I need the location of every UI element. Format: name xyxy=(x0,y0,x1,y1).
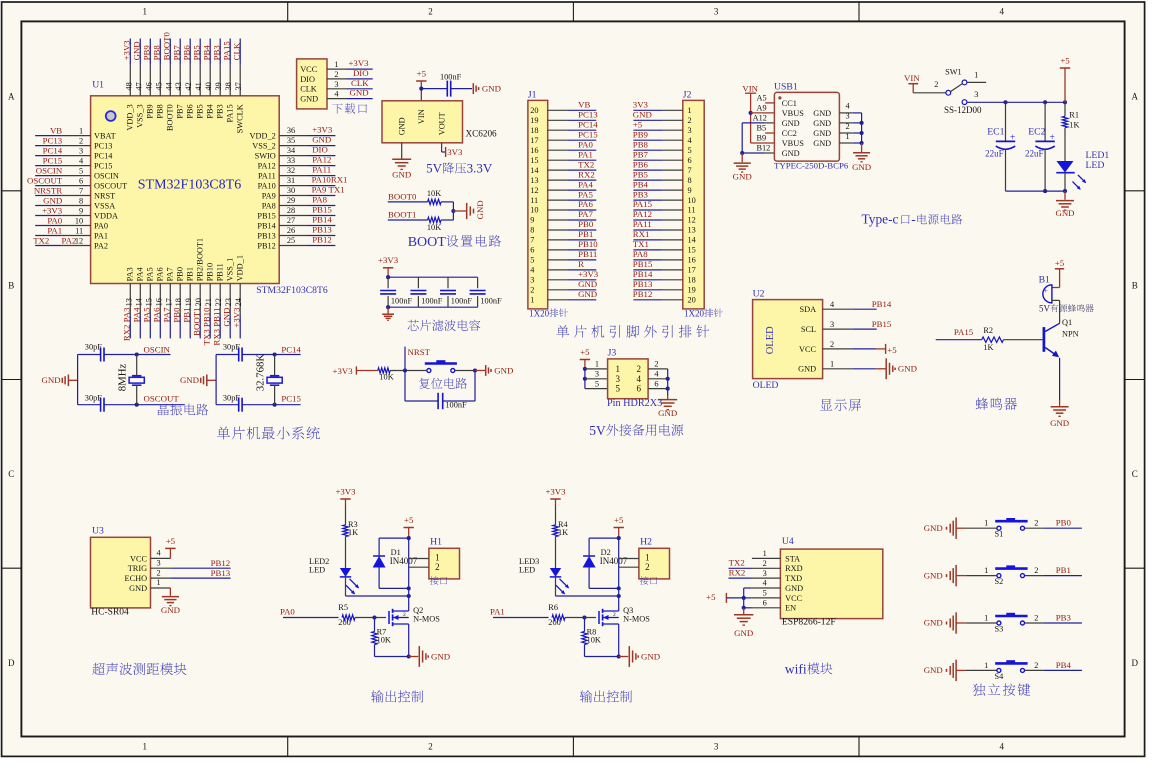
svg-text:+3V3: +3V3 xyxy=(312,125,333,135)
svg-text:Q1: Q1 xyxy=(1062,318,1072,327)
svg-text:GND: GND xyxy=(782,149,800,158)
svg-text:PA1: PA1 xyxy=(94,231,108,240)
svg-text:S2: S2 xyxy=(995,577,1004,586)
svg-text:10: 10 xyxy=(688,196,696,205)
svg-text:PB15: PB15 xyxy=(633,259,653,269)
svg-text:PB0: PB0 xyxy=(1056,518,1072,528)
svg-text:H2: H2 xyxy=(640,537,652,548)
svg-text:TYPEC-250D-BCP6: TYPEC-250D-BCP6 xyxy=(774,160,849,170)
svg-text:18: 18 xyxy=(530,126,538,135)
svg-text:NRSTR: NRSTR xyxy=(34,185,62,195)
svg-text:PA12: PA12 xyxy=(258,162,276,171)
svg-text:PB12: PB12 xyxy=(211,558,231,568)
svg-text:6: 6 xyxy=(763,599,767,608)
svg-text:PB13: PB13 xyxy=(312,225,332,235)
svg-text:2: 2 xyxy=(79,137,83,146)
svg-text:PA5: PA5 xyxy=(146,267,155,281)
svg-text:LED: LED xyxy=(1086,160,1105,171)
svg-text:10K: 10K xyxy=(377,636,391,645)
svg-text:PB7: PB7 xyxy=(633,149,649,159)
svg-text:PB12: PB12 xyxy=(312,235,332,245)
svg-text:2: 2 xyxy=(157,568,161,577)
svg-text:IN4007: IN4007 xyxy=(390,556,418,566)
svg-text:PB14: PB14 xyxy=(872,299,892,309)
svg-text:33: 33 xyxy=(287,156,295,165)
svg-text:15: 15 xyxy=(530,156,538,165)
svg-text:PA11: PA11 xyxy=(312,165,331,175)
svg-text:10K: 10K xyxy=(379,373,393,382)
svg-text:GND: GND xyxy=(1050,418,1069,428)
svg-text:PC15: PC15 xyxy=(281,394,301,404)
svg-text:OSCOUT: OSCOUT xyxy=(144,394,180,404)
svg-text:2: 2 xyxy=(846,122,850,131)
svg-text:PA10: PA10 xyxy=(258,182,276,191)
svg-text:NRST: NRST xyxy=(408,347,431,357)
svg-text:PB4: PB4 xyxy=(1056,660,1072,670)
svg-text:1: 1 xyxy=(974,71,978,80)
svg-text:GND: GND xyxy=(1055,208,1074,218)
svg-text:CC2: CC2 xyxy=(782,129,797,138)
svg-text:GND: GND xyxy=(129,584,147,593)
svg-text:5: 5 xyxy=(763,589,767,598)
svg-text:PA4: PA4 xyxy=(136,266,145,281)
svg-text:PA12: PA12 xyxy=(633,209,652,219)
svg-text:+3V3: +3V3 xyxy=(348,58,369,68)
svg-text:6: 6 xyxy=(637,384,642,394)
svg-text:SCL: SCL xyxy=(801,325,816,334)
svg-text:B1: B1 xyxy=(1039,274,1050,285)
svg-text:TX1: TX1 xyxy=(633,239,649,249)
svg-text:PA1: PA1 xyxy=(490,607,505,617)
svg-text:PA15: PA15 xyxy=(633,199,653,209)
svg-text:+: + xyxy=(1010,133,1015,143)
svg-text:100nF: 100nF xyxy=(421,297,443,306)
svg-text:30pF: 30pF xyxy=(223,394,240,403)
svg-text:PC14: PC14 xyxy=(94,152,113,161)
svg-text:GND: GND xyxy=(924,665,943,675)
svg-text:PB13: PB13 xyxy=(633,279,653,289)
svg-text:7: 7 xyxy=(79,187,83,196)
svg-text:HC-SR04: HC-SR04 xyxy=(91,608,129,618)
svg-text:20: 20 xyxy=(688,296,696,305)
svg-text:TRIG: TRIG xyxy=(128,564,147,573)
svg-text:16: 16 xyxy=(530,146,538,155)
svg-text:VDD_3: VDD_3 xyxy=(126,104,135,130)
svg-text:PC14: PC14 xyxy=(43,145,63,155)
svg-text:PA11: PA11 xyxy=(633,219,652,229)
svg-text:PB0: PB0 xyxy=(176,267,185,281)
svg-text:PB9: PB9 xyxy=(142,45,152,61)
svg-text:PC13: PC13 xyxy=(94,142,112,151)
svg-text:GND: GND xyxy=(813,139,831,148)
svg-text:48: 48 xyxy=(124,82,133,90)
svg-text:PB4: PB4 xyxy=(202,45,212,61)
svg-text:PB12: PB12 xyxy=(257,241,275,250)
svg-text:PA7: PA7 xyxy=(162,307,172,322)
svg-text:41: 41 xyxy=(194,82,203,90)
svg-text:2: 2 xyxy=(613,612,616,618)
svg-text:STM32F103C8T6: STM32F103C8T6 xyxy=(256,285,328,296)
svg-text:GND: GND xyxy=(132,41,142,60)
svg-text:5V: 5V xyxy=(589,423,606,438)
svg-text:2: 2 xyxy=(1034,519,1038,528)
svg-text:10K: 10K xyxy=(427,189,441,198)
svg-text:2: 2 xyxy=(428,7,433,17)
svg-text:Pin HDR2X3: Pin HDR2X3 xyxy=(607,398,662,409)
svg-text:VDD_1: VDD_1 xyxy=(236,255,245,281)
svg-text:+3V3: +3V3 xyxy=(378,255,399,265)
svg-text:PB15: PB15 xyxy=(872,319,892,329)
svg-text:28: 28 xyxy=(287,206,295,215)
svg-text:VDD_2: VDD_2 xyxy=(250,132,276,141)
svg-text:34: 34 xyxy=(287,146,296,155)
svg-text:PA12: PA12 xyxy=(312,155,331,165)
svg-text:A9: A9 xyxy=(757,104,767,113)
svg-text:PB0: PB0 xyxy=(578,219,594,229)
svg-text:PB8: PB8 xyxy=(633,139,649,149)
svg-text:B5: B5 xyxy=(757,124,767,133)
svg-text:SWIO: SWIO xyxy=(255,152,276,161)
svg-text:9: 9 xyxy=(79,207,83,216)
svg-text:6: 6 xyxy=(688,156,692,165)
svg-text:8: 8 xyxy=(79,197,83,206)
svg-text:PC15: PC15 xyxy=(94,162,112,171)
svg-text:7: 7 xyxy=(530,236,534,245)
svg-text:GND: GND xyxy=(300,95,318,104)
svg-text:R2: R2 xyxy=(983,326,993,335)
svg-text:1: 1 xyxy=(688,106,692,115)
svg-text:DIO: DIO xyxy=(312,145,328,155)
svg-text:1: 1 xyxy=(984,661,988,670)
svg-text:GND: GND xyxy=(350,88,369,98)
svg-text:B: B xyxy=(8,280,14,290)
svg-text:47: 47 xyxy=(134,82,143,90)
svg-text:13: 13 xyxy=(530,176,538,185)
svg-text:9: 9 xyxy=(530,216,534,225)
svg-text:VCC: VCC xyxy=(300,65,318,74)
svg-text:8: 8 xyxy=(530,226,534,235)
svg-text:GND: GND xyxy=(482,84,501,94)
svg-text:PB12: PB12 xyxy=(633,289,653,299)
svg-text:+3V3: +3V3 xyxy=(545,486,566,496)
svg-text:PA9: PA9 xyxy=(262,191,276,200)
svg-text:GND: GND xyxy=(733,172,752,182)
svg-text:22uF: 22uF xyxy=(985,148,1004,158)
svg-text:19: 19 xyxy=(530,116,538,125)
svg-text:24: 24 xyxy=(234,297,243,306)
svg-text:R: R xyxy=(578,259,584,269)
svg-text:PB4: PB4 xyxy=(206,103,215,118)
svg-text:35: 35 xyxy=(287,136,295,145)
svg-text:CLK: CLK xyxy=(232,42,242,60)
svg-text:PA8: PA8 xyxy=(633,249,648,259)
svg-text:PB6: PB6 xyxy=(633,159,649,169)
svg-text:GND: GND xyxy=(222,308,232,327)
svg-text:1: 1 xyxy=(143,742,148,752)
svg-text:H1: H1 xyxy=(430,537,442,548)
svg-text:2: 2 xyxy=(1034,566,1038,575)
svg-text:2: 2 xyxy=(830,340,834,349)
svg-text:VSS_2: VSS_2 xyxy=(252,142,276,151)
svg-text:17: 17 xyxy=(530,136,538,145)
svg-text:RX3 PB11: RX3 PB11 xyxy=(212,308,222,346)
svg-text:Q2: Q2 xyxy=(413,606,423,615)
svg-text:PB15: PB15 xyxy=(257,211,275,220)
svg-text:GND: GND xyxy=(813,129,831,138)
svg-text:BOOT1: BOOT1 xyxy=(388,210,416,220)
svg-text:4: 4 xyxy=(1000,742,1005,752)
svg-text:RX2 PA3: RX2 PA3 xyxy=(122,307,132,341)
svg-text:PB1: PB1 xyxy=(182,308,192,323)
svg-text:1: 1 xyxy=(645,553,650,563)
svg-text:PB9: PB9 xyxy=(633,129,649,139)
svg-text:+3V3: +3V3 xyxy=(335,486,356,496)
svg-text:PB3: PB3 xyxy=(633,189,649,199)
svg-text:PB11: PB11 xyxy=(578,249,597,259)
svg-text:VB: VB xyxy=(578,100,590,110)
svg-text:VCC: VCC xyxy=(785,594,803,603)
svg-text:ESP8266-12F: ESP8266-12F xyxy=(782,617,836,628)
svg-text:2: 2 xyxy=(645,562,650,572)
svg-text:+3V3: +3V3 xyxy=(42,205,63,215)
svg-text:EC2: EC2 xyxy=(1028,127,1045,138)
svg-text:PC14: PC14 xyxy=(281,344,301,354)
svg-text:VBUS: VBUS xyxy=(782,139,805,148)
svg-text:5: 5 xyxy=(595,379,599,388)
svg-text:PB6: PB6 xyxy=(182,45,192,61)
svg-text:VBUS: VBUS xyxy=(782,109,805,118)
svg-text:1: 1 xyxy=(763,549,767,558)
svg-text:PB4: PB4 xyxy=(633,179,649,189)
svg-text:18: 18 xyxy=(688,276,696,285)
svg-text:4: 4 xyxy=(637,374,642,384)
svg-text:GND: GND xyxy=(924,618,943,628)
svg-text:PB3: PB3 xyxy=(212,45,222,61)
svg-text:37: 37 xyxy=(234,82,243,90)
svg-text:PB11: PB11 xyxy=(216,263,225,281)
svg-text:CC1: CC1 xyxy=(782,99,797,108)
svg-text:+3V3: +3V3 xyxy=(578,269,599,279)
svg-text:OSCOUT: OSCOUT xyxy=(94,182,127,191)
svg-text:TX2: TX2 xyxy=(33,235,49,245)
svg-text:VCC: VCC xyxy=(799,345,817,354)
svg-text:GND: GND xyxy=(578,279,597,289)
svg-text:+: + xyxy=(1044,286,1048,295)
svg-text:DIO: DIO xyxy=(300,75,315,84)
svg-text:EN: EN xyxy=(785,604,796,613)
svg-text:ECHO: ECHO xyxy=(125,574,148,583)
svg-text:11: 11 xyxy=(530,196,538,205)
svg-text:PB8: PB8 xyxy=(156,104,165,118)
svg-text:NRST: NRST xyxy=(94,191,115,200)
svg-text:22: 22 xyxy=(214,298,223,306)
svg-text:11: 11 xyxy=(688,206,696,215)
svg-text:14: 14 xyxy=(688,236,697,245)
svg-text:1X20: 1X20 xyxy=(529,309,549,319)
svg-text:S3: S3 xyxy=(995,625,1004,634)
svg-text:6: 6 xyxy=(79,177,83,186)
svg-text:2: 2 xyxy=(435,562,440,572)
svg-text:26: 26 xyxy=(287,226,295,235)
svg-text:PA0: PA0 xyxy=(47,215,62,225)
svg-text:27: 27 xyxy=(287,216,295,225)
svg-text:PA0: PA0 xyxy=(94,221,108,230)
svg-text:1: 1 xyxy=(984,613,988,622)
svg-text:DIO: DIO xyxy=(353,68,369,78)
svg-text:OLED: OLED xyxy=(765,326,776,354)
svg-text:VDDA: VDDA xyxy=(94,211,118,220)
svg-text:GND: GND xyxy=(798,365,816,374)
svg-text:PA5: PA5 xyxy=(578,189,593,199)
svg-text:PB5: PB5 xyxy=(633,169,649,179)
svg-text:100nF: 100nF xyxy=(480,297,502,306)
svg-text:GND: GND xyxy=(392,170,411,180)
svg-text:46: 46 xyxy=(144,82,153,90)
svg-text:OSCIN: OSCIN xyxy=(94,172,119,181)
svg-text:PC13: PC13 xyxy=(43,135,63,145)
svg-text:PB13: PB13 xyxy=(257,231,275,240)
svg-text:10K: 10K xyxy=(427,223,441,232)
svg-text:GND: GND xyxy=(924,570,943,580)
svg-text:U4: U4 xyxy=(782,536,794,547)
svg-text:PB6: PB6 xyxy=(186,104,195,118)
svg-text:200: 200 xyxy=(338,618,350,627)
svg-text:BOOT0: BOOT0 xyxy=(162,31,172,60)
svg-text:1: 1 xyxy=(334,60,338,69)
svg-text:C: C xyxy=(1132,469,1138,479)
svg-text:+5: +5 xyxy=(706,592,716,602)
svg-text:21: 21 xyxy=(204,298,213,306)
svg-text:3: 3 xyxy=(763,569,767,578)
svg-text:1K: 1K xyxy=(558,528,568,537)
svg-text:GND: GND xyxy=(494,365,513,375)
svg-text:PA1: PA1 xyxy=(47,225,62,235)
svg-text:GND: GND xyxy=(852,162,871,172)
svg-text:B9: B9 xyxy=(757,134,767,143)
svg-text:GND: GND xyxy=(785,584,803,593)
svg-text:3: 3 xyxy=(595,370,599,379)
svg-text:J3: J3 xyxy=(608,347,617,358)
svg-text:PC13: PC13 xyxy=(578,110,598,120)
svg-text:15: 15 xyxy=(144,298,153,306)
svg-text:GND: GND xyxy=(312,135,331,145)
svg-text:22uF: 22uF xyxy=(1025,148,1044,158)
svg-text:14: 14 xyxy=(134,297,143,306)
svg-text:18: 18 xyxy=(174,298,183,306)
svg-text:GND: GND xyxy=(813,119,831,128)
svg-text:SS-12D00: SS-12D00 xyxy=(944,105,982,115)
svg-text:SWCLK: SWCLK xyxy=(236,104,245,133)
svg-text:R6: R6 xyxy=(548,603,558,612)
svg-text:16: 16 xyxy=(688,256,696,265)
svg-text:SW1: SW1 xyxy=(945,67,962,76)
svg-text:U2: U2 xyxy=(753,288,765,299)
svg-text:GND: GND xyxy=(431,651,450,661)
svg-text:39: 39 xyxy=(214,82,223,90)
svg-text:OSCIN: OSCIN xyxy=(36,165,63,175)
svg-text:2: 2 xyxy=(934,80,938,89)
svg-text:3: 3 xyxy=(714,7,719,17)
svg-text:SDA: SDA xyxy=(799,305,816,314)
svg-text:100nF: 100nF xyxy=(451,297,473,306)
svg-text:GND: GND xyxy=(43,195,62,205)
svg-text:2: 2 xyxy=(428,742,433,752)
svg-text:STM32F103C8T6: STM32F103C8T6 xyxy=(138,178,241,193)
svg-text:GND: GND xyxy=(475,200,485,219)
svg-text:OSCOUT: OSCOUT xyxy=(27,175,63,185)
svg-text:12: 12 xyxy=(688,216,696,225)
svg-text:PB1: PB1 xyxy=(578,229,593,239)
svg-text:PA10RX1: PA10RX1 xyxy=(312,175,348,185)
svg-text:11: 11 xyxy=(75,227,83,236)
svg-text:PB14: PB14 xyxy=(633,269,653,279)
svg-text:VSS_1: VSS_1 xyxy=(226,258,235,282)
svg-text:N-MOS: N-MOS xyxy=(623,615,650,624)
svg-text:2: 2 xyxy=(637,364,642,374)
svg-text:+: + xyxy=(1050,133,1055,143)
svg-text:9: 9 xyxy=(688,186,692,195)
svg-text:PA15: PA15 xyxy=(222,41,232,61)
svg-text:PA6: PA6 xyxy=(152,307,162,322)
svg-text:43: 43 xyxy=(174,82,183,90)
svg-text:GND: GND xyxy=(734,628,753,638)
svg-text:PA2: PA2 xyxy=(62,235,77,245)
svg-text:B12: B12 xyxy=(757,144,771,153)
svg-text:6: 6 xyxy=(530,246,534,255)
svg-text:PB5: PB5 xyxy=(196,104,205,118)
svg-text:GND: GND xyxy=(813,109,831,118)
svg-text:2: 2 xyxy=(1034,613,1038,622)
svg-text:D: D xyxy=(1132,658,1139,668)
svg-text:3: 3 xyxy=(616,374,621,384)
svg-text:PA11: PA11 xyxy=(258,172,276,181)
svg-text:10K: 10K xyxy=(587,636,601,645)
svg-text:45: 45 xyxy=(154,82,163,90)
svg-text:3: 3 xyxy=(79,147,83,156)
svg-text:PA6: PA6 xyxy=(156,267,165,281)
svg-text:1: 1 xyxy=(984,519,988,528)
svg-text:+3V3: +3V3 xyxy=(333,366,354,376)
svg-text:R1: R1 xyxy=(1069,111,1079,120)
svg-text:U1: U1 xyxy=(92,79,104,90)
svg-text:PA4: PA4 xyxy=(132,307,142,322)
svg-text:CLK: CLK xyxy=(300,85,317,94)
svg-text:2: 2 xyxy=(688,116,692,125)
svg-text:+5: +5 xyxy=(580,347,590,357)
svg-text:31: 31 xyxy=(287,176,295,185)
svg-text:2: 2 xyxy=(530,286,534,295)
svg-text:PB2/BOOT1: PB2/BOOT1 xyxy=(196,238,205,281)
svg-text:VIN: VIN xyxy=(417,109,426,124)
svg-text:1: 1 xyxy=(79,127,83,136)
svg-text:30pF: 30pF xyxy=(223,343,240,352)
svg-text:PB15: PB15 xyxy=(312,205,332,215)
svg-text:5V: 5V xyxy=(1039,304,1051,314)
svg-text:GND: GND xyxy=(633,110,652,120)
svg-text:PB7: PB7 xyxy=(172,45,182,61)
svg-text:25: 25 xyxy=(287,236,295,245)
svg-text:17: 17 xyxy=(688,266,696,275)
svg-text:8MHz: 8MHz xyxy=(117,364,129,392)
svg-text:30: 30 xyxy=(287,186,295,195)
svg-text:GND: GND xyxy=(658,408,677,418)
svg-text:J1: J1 xyxy=(528,89,537,100)
svg-text:2: 2 xyxy=(334,70,338,79)
svg-text:15: 15 xyxy=(688,246,696,255)
svg-text:GND: GND xyxy=(398,117,407,135)
svg-text:PA7: PA7 xyxy=(166,267,175,281)
svg-text:GND: GND xyxy=(180,375,199,385)
